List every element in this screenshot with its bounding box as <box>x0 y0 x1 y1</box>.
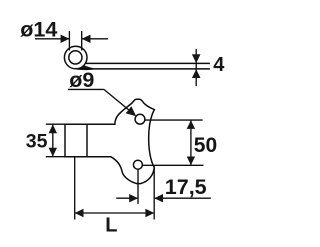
flat bar bottom line <box>77 68 210 70</box>
dimension 17,5 line left tail <box>116 197 138 199</box>
flat bar top line <box>85 62 210 64</box>
bracket plate outline <box>65 99 154 183</box>
centre extension line below bottom hole <box>137 169 139 204</box>
dimension 50 vertical line <box>190 120 192 165</box>
dimension L arrow right <box>145 209 154 217</box>
svg-text:L: L <box>105 214 117 236</box>
dimension 50 bottom arrow <box>187 157 195 166</box>
dimension ø14 arrow left <box>61 35 70 43</box>
dimension 4 bottom arrow <box>192 69 201 78</box>
dimension 35 top arrow <box>49 124 57 133</box>
hole top ø9 <box>135 114 145 124</box>
label ø9 leader diagonal <box>104 89 132 112</box>
dimension 35 bottom extension line <box>46 156 65 158</box>
svg-text:ø9: ø9 <box>69 68 94 92</box>
svg-text:35: 35 <box>26 131 48 153</box>
svg-text:17,5: 17,5 <box>165 175 207 199</box>
dimension 35 vertical line <box>52 124 54 157</box>
dimension ø14 arrow right <box>82 35 91 43</box>
dimension 17,5 arrow right <box>154 194 163 202</box>
svg-text:ø14: ø14 <box>20 18 57 42</box>
dimension 4 top arrow <box>192 54 201 63</box>
dimension ø14 extension line left <box>68 31 70 51</box>
dimension L arrow left <box>75 209 84 217</box>
label ø9 leader underline <box>68 88 104 90</box>
dimension L left extension line <box>74 157 76 220</box>
hole bottom ø9 <box>133 160 142 169</box>
label ø9 leader arrowhead <box>126 106 137 116</box>
dimension 50 bottom extension line <box>142 164 203 166</box>
dimension 35 bottom arrow <box>49 148 57 157</box>
dimension 17,5 line right tail <box>154 197 211 199</box>
rolled loop outer circle <box>64 46 87 69</box>
loop-to-bar thick transition crescent <box>65 61 96 70</box>
dimension 50 top extension line <box>145 119 203 121</box>
dimension ø14 line right tail <box>82 38 108 40</box>
rolled loop inner circle (hole ø14) <box>69 51 82 64</box>
dimension 17,5 arrow left <box>129 194 138 202</box>
dimension 17,5 right extension line <box>153 166 155 219</box>
dimension L line <box>75 212 155 214</box>
dimension 4 vertical line <box>195 49 197 86</box>
stem interior bend line <box>86 124 88 157</box>
dimension ø14 extension line right <box>81 31 83 51</box>
dimension ø14 line left tail <box>35 38 69 40</box>
svg-text:4: 4 <box>213 54 225 76</box>
svg-text:50: 50 <box>194 134 217 157</box>
dimension 50 top arrow <box>187 120 195 129</box>
dimension 35 top extension line <box>46 123 65 125</box>
